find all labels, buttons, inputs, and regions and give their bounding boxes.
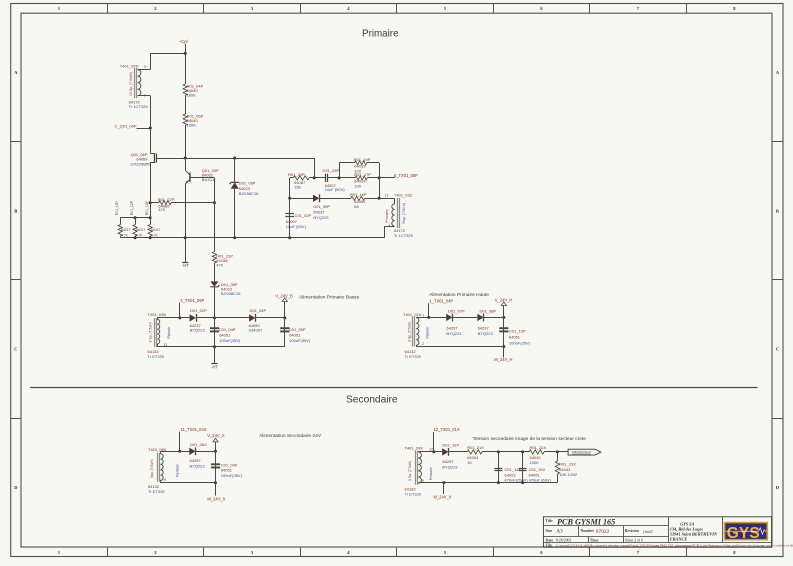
svg-text:12_TX01_01X: 12_TX01_01X xyxy=(434,427,460,432)
wire base branch down xyxy=(214,178,216,203)
wire haute top xyxy=(416,316,418,318)
wire gate node rail xyxy=(157,158,315,160)
svg-text:M_24V_X: M_24V_X xyxy=(434,495,452,500)
junction snubber top xyxy=(313,176,316,179)
capacitor C01_04P xyxy=(214,287,216,347)
resistor R01_19P branch xyxy=(339,163,341,178)
svg-text:D01_04P: D01_04P xyxy=(250,308,267,313)
svg-text:S34007: S34007 xyxy=(249,328,264,333)
junction node at zener column xyxy=(233,157,236,160)
svg-text:6_TX01_05P: 6_TX01_05P xyxy=(394,173,418,178)
svg-text:10K 1/2W: 10K 1/2W xyxy=(559,472,577,477)
svg-text:64023: 64023 xyxy=(504,472,516,477)
svg-text:100K: 100K xyxy=(530,460,540,465)
junction basse out xyxy=(283,316,286,319)
wire secx bottom xyxy=(160,480,162,482)
svg-text:D01_06P: D01_06P xyxy=(239,181,256,186)
title block frame xyxy=(543,517,771,547)
svg-text:7: 7 xyxy=(144,94,146,98)
svg-text:Tr 1CT329: Tr 1CT329 xyxy=(129,104,149,109)
svg-text:64051: 64051 xyxy=(509,334,521,339)
svg-text:C_Q01_06P: C_Q01_06P xyxy=(115,123,137,128)
resistor R01_11P xyxy=(120,218,122,225)
svg-text:M_24V_X: M_24V_X xyxy=(207,496,225,501)
svg-text:+Cpl: +Cpl xyxy=(179,39,188,44)
svg-text:100uF(35V): 100uF(35V) xyxy=(221,473,243,478)
svg-text:Date: Date xyxy=(546,538,554,542)
svg-text:D01_07P: D01_07P xyxy=(448,308,465,313)
svg-text:1: 1 xyxy=(422,313,424,317)
diode D01_09P xyxy=(290,198,313,200)
svg-text:BYQ223: BYQ223 xyxy=(446,331,462,336)
svg-text:File:: File: xyxy=(546,544,553,548)
svg-text:D01_08P: D01_08P xyxy=(480,308,497,313)
junction secy out xyxy=(556,450,559,453)
resistor R01_07P xyxy=(150,202,159,204)
section divider line xyxy=(30,387,758,389)
svg-text:Primaire: Primaire xyxy=(385,209,389,222)
junction +Cpl xyxy=(184,52,187,55)
diode D01_02P xyxy=(190,314,196,321)
svg-text:Title: Title xyxy=(546,519,554,523)
wire basse bottom xyxy=(157,344,159,347)
capacitor C01_05P xyxy=(284,318,286,347)
svg-text:B: B xyxy=(776,208,779,213)
wire +Cpl rail xyxy=(150,53,185,55)
svg-text:11_TX01_04X: 11_TX01_04X xyxy=(181,427,207,432)
svg-text:10uF (50V): 10uF (50V) xyxy=(325,187,346,192)
svg-text:PCB GYSMI 165: PCB GYSMI 165 xyxy=(557,517,615,526)
svg-text:BYQ223: BYQ223 xyxy=(190,328,206,333)
ground -HT basse xyxy=(214,347,216,364)
junction gate ladder xyxy=(149,201,152,204)
svg-text:68: 68 xyxy=(354,204,359,209)
svg-text:T401_02B: T401_02B xyxy=(148,312,167,317)
net label M_24V_H xyxy=(503,347,505,358)
resistor R01_04P xyxy=(185,53,187,84)
ground -HT emitter xyxy=(185,238,187,262)
svg-text:B: B xyxy=(14,208,17,213)
junction haute gnd xyxy=(502,345,505,348)
svg-text:-HT: -HT xyxy=(211,364,218,369)
svg-text:FRANCE: FRANCE xyxy=(670,537,688,542)
wire secx top xyxy=(160,451,162,453)
svg-text:Tr 1CT329: Tr 1CT329 xyxy=(394,233,414,238)
svg-text:64132: 64132 xyxy=(405,486,417,491)
junction secx out xyxy=(214,450,217,453)
power V_24V_B xyxy=(284,302,286,318)
wire T401 pin9 to +Cpl xyxy=(138,69,151,71)
svg-text:D01_10X: D01_10X xyxy=(442,442,459,447)
svg-text:64237: 64237 xyxy=(313,210,325,215)
svg-text:Time: Time xyxy=(590,538,599,542)
wire to transformer pin12 xyxy=(379,198,395,200)
svg-text:C01_15X: C01_15X xyxy=(529,467,546,472)
diode D01_07P xyxy=(446,314,452,321)
svg-text:V_24V_X: V_24V_X xyxy=(207,433,225,438)
svg-text:D01_02P: D01_02P xyxy=(190,308,207,313)
svg-text:64297: 64297 xyxy=(478,325,490,330)
svg-text:C01_05P: C01_05P xyxy=(289,327,306,332)
svg-text:Revision: Revision xyxy=(625,529,640,533)
diode D01_04P xyxy=(215,317,250,319)
diode D01_06X xyxy=(189,448,195,455)
svg-text:Tr ET329: Tr ET329 xyxy=(148,354,165,359)
svg-text:100uF(35V): 100uF(35V) xyxy=(509,341,531,346)
svg-text:(ind2: (ind2 xyxy=(643,529,653,534)
svg-text:3 Sp. (7.5uH): 3 Sp. (7.5uH) xyxy=(149,322,153,342)
svg-text:3sp. (7.5uH): 3sp. (7.5uH) xyxy=(150,459,154,478)
svg-text:C01_04P: C01_04P xyxy=(219,327,236,332)
svg-text:R01_22X: R01_22X xyxy=(530,445,547,450)
svg-text:BZV58C16: BZV58C16 xyxy=(239,191,259,196)
svg-text:9: 9 xyxy=(164,478,166,482)
wire basse top xyxy=(157,318,159,320)
capacitor C01_12P xyxy=(503,317,505,346)
svg-text:3 Sp. (7.5uH): 3 Sp. (7.5uH) xyxy=(408,322,412,342)
svg-text:-HT: -HT xyxy=(182,263,189,268)
capacitor C01_14X xyxy=(498,452,500,483)
svg-text:Flyback: Flyback xyxy=(426,327,430,339)
svg-text:InfoSecteur: InfoSecteur xyxy=(572,451,592,455)
wire mosfet source down xyxy=(150,162,152,203)
junction R17 left xyxy=(338,176,341,179)
junction basse mid xyxy=(213,316,216,319)
resistor R01_21P xyxy=(214,203,216,252)
svg-text:T401_02D: T401_02D xyxy=(120,64,139,69)
svg-text:C: C xyxy=(776,347,779,352)
net label M_24V_X right xyxy=(443,483,445,494)
wire base right xyxy=(190,177,215,179)
svg-text:GYS: GYS xyxy=(727,525,760,542)
power V_24V_H xyxy=(503,306,505,318)
junction haute out xyxy=(502,316,505,319)
svg-text:BYQ223: BYQ223 xyxy=(442,464,458,469)
junction bus xyxy=(134,216,137,219)
svg-text:V_24V_H: V_24V_H xyxy=(495,298,513,303)
svg-text:Number: Number xyxy=(581,529,595,533)
svg-text:R01_11P: R01_11P xyxy=(115,201,119,216)
wire secy top xyxy=(418,451,442,453)
junction R17 right xyxy=(378,176,381,179)
svg-text:T401_03C: T401_03C xyxy=(394,192,413,197)
diode D01_10X xyxy=(442,448,448,455)
svg-text:R01_21X: R01_21X xyxy=(467,445,484,450)
svg-text:C: C xyxy=(14,347,17,352)
svg-text:10uF (50V): 10uF (50V) xyxy=(286,224,307,229)
svg-text:64297: 64297 xyxy=(446,325,458,330)
svg-text:M_24V_H: M_24V_H xyxy=(494,357,512,362)
svg-text:470: 470 xyxy=(158,207,165,212)
svg-text:64051: 64051 xyxy=(289,333,301,338)
svg-text:Alimentation Secondaire 24V: Alimentation Secondaire 24V xyxy=(259,433,322,439)
wire secy bottom xyxy=(418,482,420,485)
svg-text:470uF (63V): 470uF (63V) xyxy=(529,478,552,483)
svg-text:C:\travail\2713-GL\b95\Ra cons: C:\travail\2713-GL\b95\Ra conseil e deve… xyxy=(556,544,793,548)
svg-text:3_TX01_06P: 3_TX01_06P xyxy=(180,298,204,303)
resistor ladder bus top xyxy=(120,217,150,219)
svg-text:64017: 64017 xyxy=(121,228,131,232)
svg-text:2: 2 xyxy=(422,342,424,346)
resistor R01_12P xyxy=(135,218,137,225)
svg-text:Tr ET329: Tr ET329 xyxy=(405,492,422,497)
wire transformer pin1 to rail xyxy=(385,226,395,228)
primary bottom rail xyxy=(120,237,384,239)
svg-text:Tension secondaire image de la: Tension secondaire image de la tension s… xyxy=(473,436,587,442)
zener D01_05P xyxy=(210,281,218,286)
wire R01_05P to node xyxy=(185,126,187,159)
svg-text:100K: 100K xyxy=(187,92,197,97)
svg-text:BZV58C16: BZV58C16 xyxy=(221,291,241,296)
svg-text:R01_07P: R01_07P xyxy=(158,197,175,202)
junction secy m24 xyxy=(442,481,445,484)
svg-text:470nF(250V): 470nF(250V) xyxy=(504,478,528,483)
svg-text:64017: 64017 xyxy=(151,228,161,232)
svg-text:R01_19P: R01_19P xyxy=(354,157,371,162)
resistor R01_17P xyxy=(339,177,355,179)
svg-text:100K: 100K xyxy=(187,122,197,127)
svg-text:C01_12P: C01_12P xyxy=(509,329,526,334)
junction snubber mid xyxy=(288,197,291,200)
svg-text:67022: 67022 xyxy=(596,529,610,535)
svg-text:Size: Size xyxy=(546,529,553,533)
svg-text:3 Sp. (7.5uH): 3 Sp. (7.5uH) xyxy=(408,461,412,481)
junction R16 right xyxy=(378,197,381,200)
svg-text:BYQ223: BYQ223 xyxy=(478,331,494,336)
svg-text:STD2NB50: STD2NB50 xyxy=(130,161,151,166)
mosfet Q01_06P xyxy=(150,153,155,155)
svg-text:64051: 64051 xyxy=(219,333,231,338)
resistor R01_23X xyxy=(557,452,559,461)
net label 6_TX01_05P xyxy=(379,177,395,179)
zener D01_06P xyxy=(234,158,236,182)
svg-text:Flyback: Flyback xyxy=(167,327,171,339)
junction secx gnd xyxy=(214,481,217,484)
svg-text:Tr ET329: Tr ET329 xyxy=(148,489,165,494)
svg-text:64297: 64297 xyxy=(442,459,454,464)
svg-text:9: 9 xyxy=(144,65,146,69)
port InfoSecteur xyxy=(557,451,568,453)
svg-text:V_24V_B: V_24V_B xyxy=(275,293,293,298)
svg-text:A3: A3 xyxy=(557,529,564,534)
svg-text:R01_17P: R01_17P xyxy=(354,172,371,177)
svg-text:10 Sp. (7.5mH): 10 Sp. (7.5mH) xyxy=(129,72,133,96)
diode D01_08P xyxy=(477,314,483,321)
svg-text:D01_09P: D01_09P xyxy=(313,204,330,209)
resistor R01_05P xyxy=(185,96,187,115)
net label M_24V_X xyxy=(215,483,217,496)
junction secy c1 xyxy=(497,450,500,453)
resistor R01_22X xyxy=(498,451,529,453)
wire T401 pin7 down xyxy=(138,95,151,97)
svg-text:64017: 64017 xyxy=(136,228,146,232)
svg-text:64051: 64051 xyxy=(529,472,541,477)
wire haute bottom xyxy=(416,345,418,346)
wire snubber mid vertical xyxy=(289,178,291,238)
junction node at R ladder xyxy=(184,157,187,160)
svg-text:Sheet 2 of 6: Sheet 2 of 6 xyxy=(625,539,643,543)
svg-text:1_TX01_04P: 1_TX01_04P xyxy=(429,298,453,303)
capacitor C01_02P xyxy=(285,213,294,215)
svg-text:12: 12 xyxy=(385,193,389,197)
wire emitter down xyxy=(185,183,187,237)
svg-text:64297: 64297 xyxy=(190,458,202,463)
svg-text:R01_13P: R01_13P xyxy=(145,200,149,215)
svg-text:15K: 15K xyxy=(294,185,301,190)
svg-text:C01_02P: C01_02P xyxy=(295,213,312,218)
svg-text:T401_09X: T401_09X xyxy=(405,446,424,451)
svg-text:Fly Back: Fly Back xyxy=(175,464,179,477)
wire R16-R17 vertical xyxy=(379,178,381,198)
junction basse gnd xyxy=(213,345,216,348)
svg-text:D01_06X: D01_06X xyxy=(190,442,207,447)
junction secy c2 xyxy=(521,450,524,453)
svg-text:100: 100 xyxy=(354,184,361,189)
svg-text:Rap. (7/34 tr): Rap. (7/34 tr) xyxy=(402,203,406,224)
junction base-R01_07P xyxy=(213,201,216,204)
svg-text:470: 470 xyxy=(216,263,223,268)
svg-text:C01_03P: C01_03P xyxy=(323,168,340,173)
wire node to snubber xyxy=(314,158,316,178)
svg-text:Tr ET329: Tr ET329 xyxy=(405,354,422,359)
svg-text:Secondaire: Secondaire xyxy=(346,395,398,406)
svg-text:R01_20P: R01_20P xyxy=(288,172,305,177)
capacitor C01_04X xyxy=(215,451,217,482)
svg-text:100uF(35V): 100uF(35V) xyxy=(289,338,311,343)
svg-text:Alimentation Primaire Basse: Alimentation Primaire Basse xyxy=(299,294,360,300)
svg-text:R01_12P: R01_12P xyxy=(130,200,134,215)
svg-text:BYQ223: BYQ223 xyxy=(313,215,329,220)
svg-text:8/28/2003: 8/28/2003 xyxy=(556,539,572,543)
logo GYS xyxy=(724,522,768,541)
transistor Q01_03P xyxy=(185,158,187,170)
svg-text:Alimentation Primaire Haute: Alimentation Primaire Haute xyxy=(429,292,489,298)
svg-text:Primaire: Primaire xyxy=(362,28,399,39)
resistor R01_13P xyxy=(150,203,152,225)
svg-text:Primaire: Primaire xyxy=(429,467,433,480)
capacitor C01_15X xyxy=(522,452,524,483)
svg-text:BYQ223: BYQ223 xyxy=(190,463,206,468)
svg-text:100uF(35V): 100uF(35V) xyxy=(219,338,241,343)
svg-text:1K: 1K xyxy=(467,460,472,465)
